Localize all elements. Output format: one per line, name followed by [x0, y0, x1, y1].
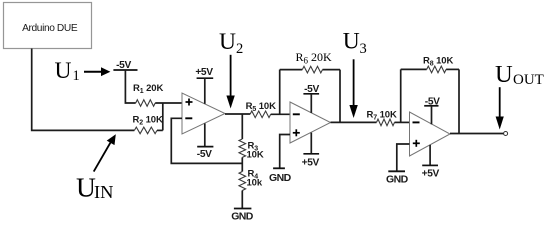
wire feedback op-amp1 (- input to R3/R4 node) — [171, 118, 242, 163]
svg-text:+5V: +5V — [422, 168, 440, 179]
svg-text:R6 20K: R6 20K — [296, 50, 333, 66]
resistor R1 — [133, 83, 163, 106]
op-amp U3 — [410, 112, 451, 156]
resistor R3 — [239, 139, 264, 160]
+5V pin op-amp1 — [195, 67, 213, 104]
svg-text:OUT: OUT — [513, 72, 544, 88]
wire Arduino to R2 — [32, 49, 135, 131]
svg-text:10k: 10k — [247, 177, 263, 188]
wire R6 down to output op-amp2 — [339, 70, 341, 123]
wire output op-amp2 — [331, 121, 377, 123]
label UIN — [76, 171, 113, 202]
wire output op-amp1 — [225, 113, 250, 115]
resistor R4 — [239, 169, 263, 191]
svg-text:U: U — [219, 29, 236, 55]
+5V pin op-amp2 — [302, 133, 320, 169]
svg-text:R1 20K: R1 20K — [133, 83, 163, 95]
wire junction R1/R2 — [162, 103, 164, 130]
svg-text:GND: GND — [386, 173, 409, 185]
wire R3 to R4 — [241, 157, 243, 171]
-5V pin op-amp2 — [303, 84, 319, 113]
resistor R6 — [280, 50, 340, 73]
svg-text:Arduino DUE: Arduino DUE — [22, 23, 78, 34]
resistor R7 — [367, 110, 397, 126]
wire + input op-amp2 to ground — [280, 135, 290, 169]
-5V pin op-amp1 — [197, 123, 214, 160]
arrow U3 — [349, 59, 357, 118]
svg-text:10K: 10K — [247, 149, 264, 160]
resistor R8 — [401, 56, 459, 73]
svg-text:U: U — [76, 171, 96, 202]
wire R8 down to output op-amp3 — [458, 69, 460, 133]
op-amp U1 — [182, 93, 225, 134]
node vertical to R3 — [241, 114, 243, 139]
wire feedback riser to R6 — [279, 70, 281, 115]
-5V pin op-amp3 — [424, 97, 440, 125]
arrow U2 — [226, 55, 234, 109]
wire R1 to op-amp + input — [155, 102, 182, 104]
Arduino DUE box — [4, 3, 92, 49]
svg-text:R8 10K: R8 10K — [423, 56, 453, 68]
+5V pin op-amp3 — [422, 145, 440, 180]
svg-text:+5V: +5V — [195, 67, 213, 78]
label UOUT — [495, 61, 544, 88]
wire R2 to junction — [157, 129, 163, 131]
label U3 — [343, 29, 367, 57]
svg-text:-5V: -5V — [197, 149, 212, 160]
wire feedback riser to R8 — [400, 69, 402, 122]
svg-text:+5V: +5V — [302, 158, 320, 169]
wire R7 to op-amp3 - input — [395, 121, 410, 123]
output terminal — [504, 132, 508, 136]
label U2 — [219, 29, 243, 57]
svg-text:R7 10K: R7 10K — [367, 110, 397, 122]
svg-text:GND: GND — [231, 211, 254, 223]
arrow UIN — [94, 134, 116, 171]
wire R5 to op-amp2 - input — [271, 113, 290, 115]
svg-text:IN: IN — [94, 182, 113, 202]
svg-text:1: 1 — [73, 68, 80, 84]
svg-text:R5 10K: R5 10K — [246, 101, 276, 113]
arrow UOUT — [496, 87, 504, 129]
wire + input op-amp3 to ground — [397, 144, 410, 171]
wire output op-amp3 — [450, 133, 504, 135]
svg-text:R2 10K: R2 10K — [133, 114, 163, 126]
svg-text:U: U — [495, 61, 513, 88]
resistor R2 — [133, 114, 163, 133]
ground op-amp2 — [269, 168, 292, 184]
-5V supply pin (input) — [113, 60, 137, 103]
svg-text:3: 3 — [360, 41, 367, 57]
label U1 — [55, 58, 80, 84]
svg-text:2: 2 — [236, 41, 243, 57]
op-amp U2 — [290, 102, 331, 143]
ground R4 — [231, 191, 254, 223]
ground op-amp3 — [386, 171, 409, 185]
resistor R5 — [246, 101, 276, 118]
svg-text:U: U — [343, 29, 360, 55]
svg-text:U: U — [55, 58, 72, 84]
arrow U1 — [84, 67, 110, 76]
svg-text:GND: GND — [269, 172, 292, 184]
